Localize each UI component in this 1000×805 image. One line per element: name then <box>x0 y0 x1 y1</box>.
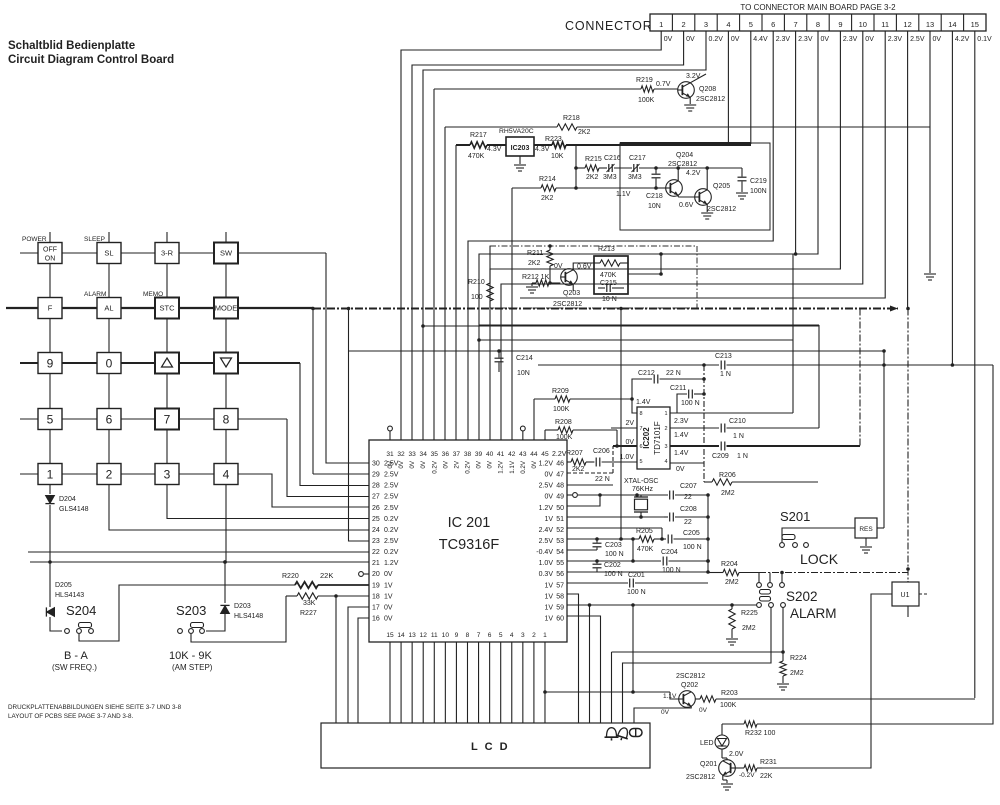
svg-text:R203: R203 <box>721 690 738 697</box>
switch S203 <box>178 629 183 634</box>
svg-text:1.1V: 1.1V <box>616 191 631 198</box>
svg-text:4.4V: 4.4V <box>753 36 768 43</box>
wire pin14 down <box>951 31 953 365</box>
svg-text:IC203: IC203 <box>511 145 530 152</box>
button SL <box>97 243 121 264</box>
svg-text:470K: 470K <box>600 272 617 279</box>
svg-text:R213: R213 <box>598 246 615 253</box>
svg-text:8: 8 <box>816 20 820 29</box>
svg-text:2.5V: 2.5V <box>384 494 399 501</box>
wire R208 line <box>544 430 546 440</box>
diode D205 HLS4148 <box>49 562 51 607</box>
svg-text:19: 19 <box>372 582 380 589</box>
svg-text:13: 13 <box>926 20 934 29</box>
resistor R207 2K2 <box>571 459 586 465</box>
svg-text:Q208: Q208 <box>699 86 716 93</box>
svg-text:IC 201: IC 201 <box>448 515 491 531</box>
wire col4 to y562 line <box>225 484 227 562</box>
svg-text:2K2: 2K2 <box>578 129 591 136</box>
diode D204 GLS4148 <box>49 484 51 494</box>
svg-text:RES: RES <box>859 526 873 533</box>
svg-text:21: 21 <box>372 560 380 567</box>
svg-text:22K: 22K <box>320 571 333 580</box>
resistor R203 100K <box>700 696 716 702</box>
wire pin7 down <box>795 31 797 254</box>
svg-text:S201: S201 <box>780 509 810 524</box>
svg-text:MEMO: MEMO <box>143 291 163 298</box>
svg-text:2.5V: 2.5V <box>384 461 399 468</box>
button F <box>38 298 62 319</box>
wire pin52 line <box>567 527 662 529</box>
wire R227 line <box>286 595 297 597</box>
svg-text:24: 24 <box>372 527 380 534</box>
svg-text:4.2V: 4.2V <box>955 36 970 43</box>
svg-text:13: 13 <box>408 632 416 639</box>
svg-text:59: 59 <box>556 604 564 611</box>
svg-text:0.2V: 0.2V <box>384 527 399 534</box>
svg-text:C214: C214 <box>516 355 533 362</box>
svg-text:30: 30 <box>372 461 380 468</box>
button 3-R <box>155 243 179 264</box>
svg-text:57: 57 <box>556 582 564 589</box>
svg-text:54: 54 <box>556 549 564 556</box>
wire IC202 pin2 C210 line <box>670 427 719 429</box>
resistor R209 100K <box>555 396 570 402</box>
svg-text:C202: C202 <box>604 562 621 569</box>
svg-text:3: 3 <box>164 467 171 481</box>
svg-text:C206: C206 <box>593 448 610 455</box>
svg-text:1 N: 1 N <box>720 371 731 378</box>
svg-text:1V: 1V <box>544 615 553 622</box>
wire S201 to RES <box>782 528 855 542</box>
wire Q202 emitter <box>634 706 691 723</box>
wire R209 line <box>533 399 535 440</box>
svg-text:S202: S202 <box>786 589 818 604</box>
button 9 <box>38 353 62 374</box>
svg-text:R208: R208 <box>555 419 572 426</box>
wire pin60 line <box>567 616 601 723</box>
capacitor C209 1N <box>720 442 722 451</box>
svg-text:(AM STEP): (AM STEP) <box>172 663 213 672</box>
wire dash vertical to U1 <box>907 309 909 582</box>
wire line y326 <box>423 325 819 327</box>
svg-text:2M2: 2M2 <box>742 625 756 632</box>
resistor R212 1K <box>532 282 536 284</box>
wire C213 line to LED rail <box>758 365 993 724</box>
svg-text:2V: 2V <box>625 420 634 427</box>
svg-text:4: 4 <box>726 20 730 29</box>
wire R214 line <box>511 188 513 440</box>
svg-text:5: 5 <box>749 20 753 29</box>
svg-text:10: 10 <box>442 632 450 639</box>
svg-text:2: 2 <box>106 467 113 481</box>
wire pin56 line <box>567 571 708 573</box>
svg-text:Q201: Q201 <box>700 761 717 768</box>
svg-text:40: 40 <box>486 451 494 458</box>
wire IC202 pin7 <box>611 427 637 429</box>
svg-text:2.5V: 2.5V <box>384 472 399 479</box>
svg-text:C216: C216 <box>604 155 621 162</box>
svg-text:2SC2812: 2SC2812 <box>668 161 697 168</box>
svg-text:34: 34 <box>420 451 428 458</box>
wire Q205 collector <box>706 168 708 190</box>
svg-text:1: 1 <box>664 411 667 417</box>
svg-text:C215: C215 <box>600 280 617 287</box>
capacitor C212 22N <box>653 375 655 384</box>
svg-text:470K: 470K <box>637 546 654 553</box>
wire row1 to IC201 pin30 <box>326 253 369 463</box>
wire x708 rail <box>707 495 709 573</box>
resistor R208 100K <box>558 427 573 433</box>
wire keypad row1 <box>20 252 326 254</box>
svg-text:0V: 0V <box>661 709 670 716</box>
wire pin4 down <box>727 31 729 144</box>
svg-text:5: 5 <box>47 412 54 426</box>
svg-text:1.2V: 1.2V <box>384 560 399 567</box>
resistor R215 2K2 <box>585 165 599 171</box>
svg-text:2.4V: 2.4V <box>539 527 554 534</box>
wire bus tap to pin23 <box>347 307 351 311</box>
svg-text:2K2: 2K2 <box>586 174 599 181</box>
wire IC202 pin8 C212 loop <box>632 379 652 413</box>
svg-text:1.2V: 1.2V <box>498 460 505 474</box>
wire C214 line y351 <box>349 350 885 352</box>
capacitor C217 3M3 <box>633 164 635 172</box>
wire pin11 to line y298 <box>520 31 885 298</box>
svg-text:0V: 0V <box>442 460 449 468</box>
svg-text:46: 46 <box>556 461 564 468</box>
svg-text:12: 12 <box>420 632 428 639</box>
button MODE <box>214 298 238 319</box>
svg-text:R217: R217 <box>470 132 487 139</box>
wire Q202 collector <box>695 698 700 700</box>
button 6 <box>97 409 121 430</box>
svg-text:R214: R214 <box>539 176 556 183</box>
svg-text:3: 3 <box>521 632 525 639</box>
wire S204 to R220 <box>79 585 295 641</box>
svg-text:6: 6 <box>640 444 643 450</box>
wire keypad row2 thick <box>6 307 313 309</box>
svg-text:10K - 9K: 10K - 9K <box>169 650 212 662</box>
wire dash vertical x860 <box>859 309 861 447</box>
wire R219 line <box>433 89 435 440</box>
svg-text:32: 32 <box>397 451 405 458</box>
svg-text:AL: AL <box>104 304 113 313</box>
svg-text:TO CONNECTOR MAIN BOARD PAGE 3: TO CONNECTOR MAIN BOARD PAGE 3-2 <box>740 3 896 12</box>
svg-text:R227: R227 <box>300 610 317 617</box>
capacitor C202 100N <box>595 559 599 563</box>
svg-text:1.0V: 1.0V <box>539 560 554 567</box>
svg-text:3: 3 <box>664 444 667 450</box>
svg-text:1.1V: 1.1V <box>663 693 677 700</box>
svg-text:0V: 0V <box>686 36 695 43</box>
svg-text:0.3V: 0.3V <box>539 571 554 578</box>
svg-text:4: 4 <box>223 467 230 481</box>
wire keypad row4 <box>20 418 287 420</box>
svg-text:33: 33 <box>408 451 416 458</box>
svg-text:2SC2812: 2SC2812 <box>553 301 582 308</box>
svg-text:0.7V: 0.7V <box>656 81 671 88</box>
svg-text:39: 39 <box>475 451 483 458</box>
button AL <box>97 298 121 319</box>
svg-text:100 N: 100 N <box>605 551 624 558</box>
svg-text:10 N: 10 N <box>602 296 617 303</box>
svg-text:100 N: 100 N <box>681 400 700 407</box>
svg-text:2.3V: 2.3V <box>798 36 813 43</box>
svg-text:6: 6 <box>488 632 492 639</box>
svg-text:29: 29 <box>372 472 380 479</box>
svg-text:2V: 2V <box>453 460 460 468</box>
wire U1 to Q201 <box>762 594 892 768</box>
svg-text:1.4V: 1.4V <box>636 399 651 406</box>
wire R224 line <box>612 651 784 653</box>
svg-text:1V: 1V <box>544 516 553 523</box>
svg-text:0V: 0V <box>664 36 673 43</box>
wire pin2 to IC201 pin33 <box>412 31 684 440</box>
svg-text:0V: 0V <box>554 263 563 270</box>
svg-text:0.6V: 0.6V <box>679 202 694 209</box>
svg-text:R209: R209 <box>552 388 569 395</box>
svg-text:100K: 100K <box>553 406 570 413</box>
capacitor C214 10N <box>497 349 501 353</box>
svg-text:1: 1 <box>543 632 547 639</box>
capacitor C218 10N <box>655 168 657 174</box>
wire x621 vertical <box>620 309 622 540</box>
wire pin1 to IC201 pin32 <box>401 31 661 440</box>
svg-text:35: 35 <box>431 451 439 458</box>
svg-text:11: 11 <box>881 20 889 29</box>
svg-text:470K: 470K <box>468 153 485 160</box>
transistor Q203 2SC2812 <box>561 269 578 286</box>
svg-text:0V: 0V <box>544 494 553 501</box>
button 4 <box>214 464 238 485</box>
svg-text:0V: 0V <box>487 460 494 468</box>
svg-text:43: 43 <box>519 451 527 458</box>
terminal pin31 <box>389 431 391 440</box>
svg-text:42: 42 <box>508 451 516 458</box>
svg-text:0.2V: 0.2V <box>464 460 471 474</box>
capacitor C210 1N <box>720 424 722 433</box>
capacitor C207 22 <box>637 494 668 496</box>
wire pin22 line <box>28 551 369 553</box>
svg-text:2.0V: 2.0V <box>729 751 744 758</box>
svg-text:0V: 0V <box>476 460 483 468</box>
svg-text:22: 22 <box>684 494 692 501</box>
wire y562 line <box>30 561 369 563</box>
resistor R204 2M2 <box>708 572 723 574</box>
svg-text:U1: U1 <box>901 592 910 599</box>
svg-text:1: 1 <box>47 467 54 481</box>
wire x819 up <box>818 325 820 428</box>
svg-text:100K: 100K <box>638 97 655 104</box>
wire Q203 emitter <box>572 284 574 291</box>
wire Q204 emitter to Q205 base <box>677 195 679 197</box>
wire x704 dash rail <box>703 365 705 482</box>
svg-text:GLS4148: GLS4148 <box>59 506 89 513</box>
capacitor C208 22 <box>664 516 668 518</box>
svg-text:C217: C217 <box>629 155 646 162</box>
wire pin53 line <box>567 538 639 540</box>
wire IC202 pin4 <box>670 462 704 464</box>
resistor R214 2K2 <box>541 185 556 191</box>
svg-text:100 N: 100 N <box>662 567 681 574</box>
svg-text:0.1V: 0.1V <box>977 36 992 43</box>
svg-text:R224: R224 <box>790 655 807 662</box>
svg-text:0: 0 <box>106 356 113 370</box>
svg-text:37: 37 <box>453 451 461 458</box>
resistor R219 100K <box>641 86 654 92</box>
transistor Q204 2SC2812 <box>666 180 683 197</box>
svg-text:0V: 0V <box>676 466 685 473</box>
wire Q201 emitter <box>722 775 724 780</box>
capacitor C205 100N <box>667 535 669 544</box>
svg-text:0.2V: 0.2V <box>384 516 399 523</box>
svg-text:5: 5 <box>640 459 643 465</box>
svg-text:-0.2V: -0.2V <box>739 772 755 779</box>
svg-text:1 N: 1 N <box>737 453 748 460</box>
wire Q208 collector <box>690 74 706 83</box>
svg-text:52: 52 <box>556 527 564 534</box>
wire R215 node <box>575 145 577 188</box>
wire pin10 to IC201 pin41 <box>501 31 863 440</box>
svg-text:7: 7 <box>794 20 798 29</box>
svg-text:0V: 0V <box>699 707 708 714</box>
svg-text:4.3V: 4.3V <box>535 146 550 153</box>
svg-text:38: 38 <box>464 451 472 458</box>
svg-text:2SC2812: 2SC2812 <box>676 673 705 680</box>
svg-text:2SC2812: 2SC2812 <box>696 96 725 103</box>
svg-text:1.4V: 1.4V <box>674 450 689 457</box>
svg-text:9: 9 <box>838 20 842 29</box>
svg-text:XTAL-OSC: XTAL-OSC <box>624 478 659 485</box>
wire pin48 line <box>567 484 613 486</box>
svg-text:0V: 0V <box>731 36 740 43</box>
wire IC202 pin3 thick line <box>613 445 637 447</box>
svg-text:C208: C208 <box>680 506 697 513</box>
wire keypad column 3 <box>166 232 168 474</box>
svg-text:10N: 10N <box>648 203 661 210</box>
wire Q201 base R231 <box>736 767 745 769</box>
svg-text:1: 1 <box>659 20 663 29</box>
svg-text:2.3V: 2.3V <box>888 36 903 43</box>
wire row3 to IC201 pin28 <box>300 363 369 486</box>
svg-text:R223: R223 <box>545 136 562 143</box>
svg-text:C205: C205 <box>683 530 700 537</box>
svg-text:2.5V: 2.5V <box>384 505 399 512</box>
svg-text:22 N: 22 N <box>666 370 681 377</box>
svg-text:Q205: Q205 <box>713 183 730 190</box>
button 5 <box>38 409 62 430</box>
wire pin59 line <box>567 604 757 606</box>
svg-text:C211: C211 <box>670 385 686 392</box>
capacitor C206 22N <box>595 458 597 467</box>
wire Q202 base <box>543 690 547 694</box>
svg-text:3M3: 3M3 <box>628 174 642 181</box>
wire pin46 line <box>567 461 571 463</box>
svg-text:15: 15 <box>386 632 394 639</box>
svg-text:C201: C201 <box>628 572 645 579</box>
ground Q205 <box>701 212 713 214</box>
svg-text:Q203: Q203 <box>563 290 580 297</box>
feedback box R213 C215 <box>594 256 628 294</box>
wire pin9 to IC201 pin40 <box>490 31 840 440</box>
svg-text:76KHz: 76KHz <box>632 486 654 493</box>
svg-text:0.2V: 0.2V <box>384 549 399 556</box>
svg-text:R232 100: R232 100 <box>745 730 775 737</box>
svg-text:HLS4148: HLS4148 <box>234 613 263 620</box>
svg-text:3.2V: 3.2V <box>686 73 701 80</box>
svg-text:LOCK: LOCK <box>800 551 839 567</box>
LED D201 <box>721 724 723 735</box>
svg-text:36: 36 <box>442 451 450 458</box>
capacitor C204 100N <box>662 557 664 566</box>
capacitor C216 3M3 <box>608 164 610 172</box>
svg-text:2.5V: 2.5V <box>384 483 399 490</box>
svg-text:R219: R219 <box>636 77 653 84</box>
svg-text:0.2V: 0.2V <box>431 460 438 474</box>
wire keypad column 1 <box>49 232 51 474</box>
svg-text:45: 45 <box>541 451 549 458</box>
wire pin5 down <box>750 31 752 144</box>
svg-text:TC9316F: TC9316F <box>439 537 500 553</box>
svg-text:R211: R211 <box>527 250 543 257</box>
button TU <box>155 353 179 374</box>
svg-text:C204: C204 <box>661 549 678 556</box>
svg-text:31: 31 <box>386 451 394 458</box>
wire pin55 line <box>567 560 661 562</box>
svg-text:R210: R210 <box>468 279 485 286</box>
wires IC201 bottom pins to LCD <box>389 642 391 723</box>
wire pin3 to IC201 pin34 <box>423 31 706 440</box>
svg-text:100: 100 <box>471 294 483 301</box>
svg-text:2.5V: 2.5V <box>910 36 925 43</box>
svg-text:R220: R220 <box>282 573 299 580</box>
svg-text:100 N: 100 N <box>604 571 623 578</box>
svg-text:14: 14 <box>397 632 405 639</box>
resistor R218 2K2 <box>557 124 577 130</box>
svg-text:100K: 100K <box>720 702 737 709</box>
ground pin13 <box>924 273 936 275</box>
resistor pack RES <box>855 518 877 538</box>
svg-text:0V: 0V <box>384 571 393 578</box>
svg-text:2M2: 2M2 <box>721 490 735 497</box>
svg-text:OFF: OFF <box>43 247 57 254</box>
svg-text:0V: 0V <box>544 472 553 479</box>
svg-text:27: 27 <box>372 494 380 501</box>
svg-text:1V: 1V <box>544 593 553 600</box>
svg-text:LED: LED <box>700 740 714 747</box>
wire pin51 line <box>567 516 664 518</box>
svg-text:CONNECTOR: CONNECTOR <box>565 19 653 33</box>
capacitor C215 10N <box>598 287 605 289</box>
svg-text:L C D: L C D <box>471 741 510 753</box>
resistor R210 100 <box>489 246 491 283</box>
wire pin15 down <box>974 31 976 698</box>
ground IC203 <box>519 156 521 164</box>
svg-text:R206: R206 <box>719 472 736 479</box>
wire pin6 to IC201 pin38 <box>468 31 773 440</box>
ground RES <box>865 538 867 546</box>
svg-text:1V: 1V <box>544 582 553 589</box>
wire S202 middle contact <box>623 607 772 723</box>
svg-text:3-R: 3-R <box>161 249 174 258</box>
capacitor C213 1N line <box>538 364 719 366</box>
svg-text:0V: 0V <box>933 36 942 43</box>
svg-text:DRUCKPLATTENABBILDUNGEN SIEHE: DRUCKPLATTENABBILDUNGEN SIEHE SEITE 3-7 … <box>8 704 182 711</box>
button 1 <box>38 464 62 485</box>
svg-text:28: 28 <box>372 483 380 490</box>
wire pin49 terminal <box>567 494 572 496</box>
